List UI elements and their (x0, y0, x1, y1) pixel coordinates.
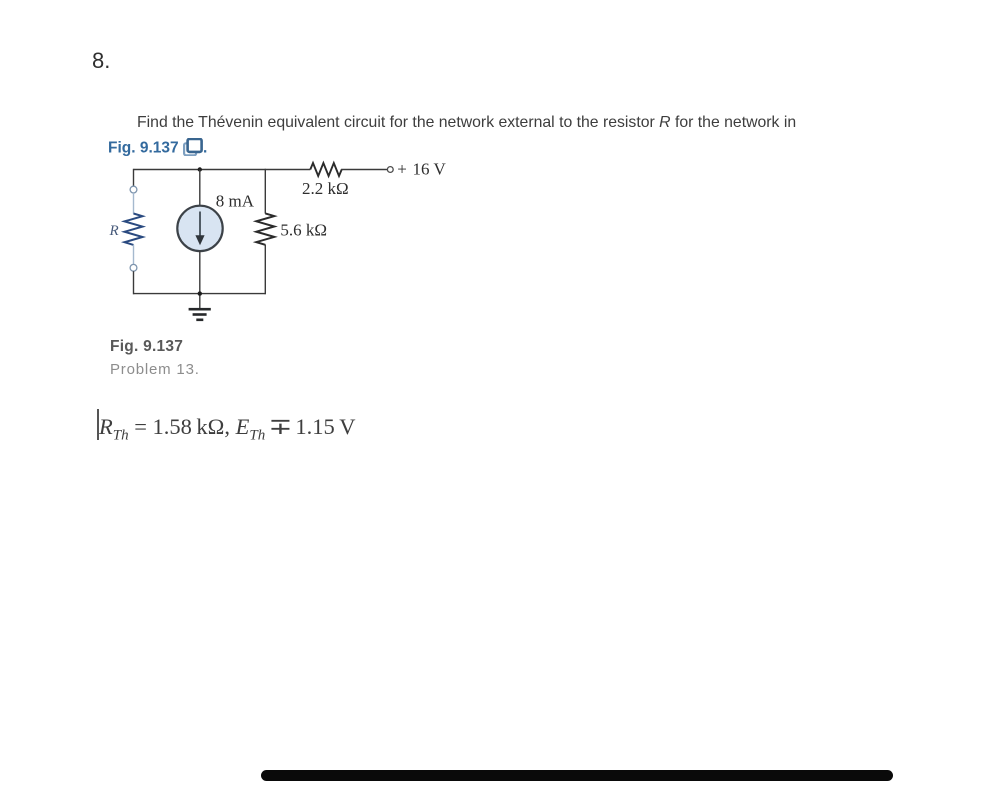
caption Fig. 9.137 (110, 338, 183, 356)
terminal open circle bottom of R (130, 264, 137, 271)
svg-text:8 mA: 8 mA (216, 192, 255, 211)
wire left branch bottom (133, 271, 135, 294)
terminal +16V open circle (387, 167, 393, 173)
terminal open circle top of R (130, 186, 137, 193)
answer cursor artifact (97, 409, 99, 440)
svg-text:5.6 kΩ: 5.6 kΩ (280, 221, 327, 240)
wire current source top (199, 170, 201, 207)
node dot top (current source branch) (198, 167, 202, 171)
wire 5.6k branch top (264, 169, 266, 214)
figure link "Fig. 9.137" (108, 138, 207, 158)
ground symbol (189, 308, 211, 321)
node dot bottom (198, 291, 202, 295)
wire current source bottom (199, 251, 201, 308)
wire top horizontal (134, 169, 311, 171)
svg-text:R: R (109, 223, 119, 239)
caption Problem 13. (110, 361, 200, 378)
answer formula (99, 414, 356, 445)
bottom black bar (261, 770, 893, 782)
problem number 8. (92, 48, 110, 74)
current source I=8mA circle (177, 206, 222, 251)
wire left branch top (133, 169, 135, 186)
svg-text:2.2 kΩ: 2.2 kΩ (302, 179, 349, 198)
wire connector to R (133, 193, 135, 214)
problem statement text (137, 114, 796, 132)
wire connector below R (133, 245, 135, 265)
current source arrow (199, 212, 201, 238)
wire 5.6k branch bottom (264, 245, 266, 295)
resistor 5.6k zigzag (256, 213, 274, 244)
resistor R zigzag (125, 214, 143, 245)
resistor 2.2k zigzag (310, 163, 341, 176)
svg-text:+ 16 V: + 16 V (397, 159, 446, 178)
wire to terminal (341, 169, 387, 171)
wire bottom horizontal (134, 293, 266, 295)
